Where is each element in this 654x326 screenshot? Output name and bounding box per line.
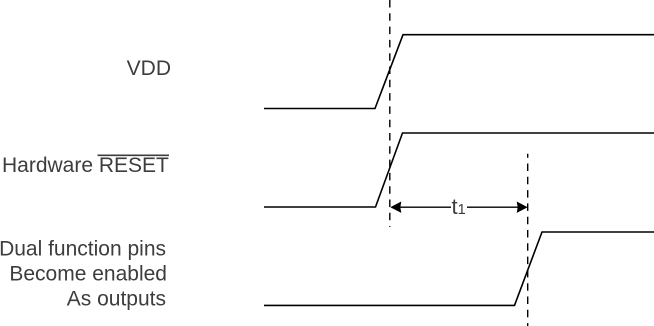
svg-text:Hardware RESET: Hardware RESET — [2, 154, 169, 177]
dashed line 2 — [527, 154, 529, 326]
svg-text:t1: t1 — [452, 194, 466, 219]
svg-text:As outputs: As outputs — [67, 288, 166, 311]
svg-text:Become enabled: Become enabled — [9, 262, 167, 285]
svg-text:VDD: VDD — [127, 57, 171, 80]
wire RESET waveform — [264, 133, 654, 207]
overline over RESET — [98, 154, 170, 156]
svg-text:Dual function pins: Dual function pins — [0, 237, 166, 260]
arrow t1 right segment — [467, 206, 519, 208]
arrowhead right — [517, 202, 528, 213]
wire VDD waveform — [264, 35, 654, 109]
dashed line 1 — [389, 0, 391, 227]
arrowhead left — [390, 202, 401, 213]
wire dual function pins waveform — [264, 232, 654, 305]
arrow t1 left segment — [399, 206, 451, 208]
